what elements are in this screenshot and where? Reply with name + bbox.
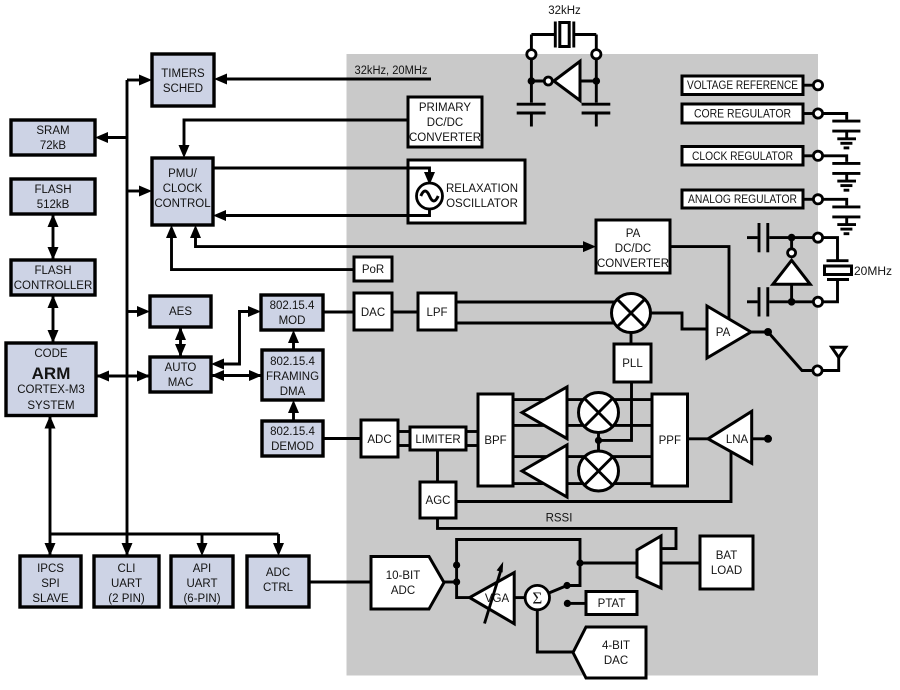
wire sigma to 4-BIT DAC bbox=[537, 610, 573, 652]
svg-text:CORTEX-M3: CORTEX-M3 bbox=[17, 384, 85, 396]
svg-text:MAC: MAC bbox=[168, 377, 194, 389]
svg-text:72kB: 72kB bbox=[40, 140, 67, 152]
block PTAT bbox=[586, 592, 637, 615]
block CORE REGULATOR bbox=[682, 104, 803, 123]
svg-text:FRAMING: FRAMING bbox=[266, 371, 319, 383]
wire loop bracket bbox=[457, 540, 580, 566]
node LNA RF pin bbox=[764, 435, 772, 443]
wire trapezoid to BAT LOAD bbox=[661, 562, 700, 565]
node switch contact PTAT bbox=[564, 600, 571, 607]
svg-text:CONTROLLER: CONTROLLER bbox=[14, 280, 93, 292]
svg-text:PA: PA bbox=[626, 228, 641, 240]
svg-text:10-BIT: 10-BIT bbox=[386, 570, 421, 582]
wire DEMOD to ADC bbox=[323, 437, 361, 440]
wire PMU to PA DCDC converter bbox=[190, 225, 596, 252]
antenna bbox=[823, 347, 846, 370]
wire FLASH CONTROLLER to ARM double arrow bbox=[48, 295, 59, 343]
svg-text:OSCILLATOR: OSCILLATOR bbox=[446, 198, 518, 210]
wire 32kHz 20MHz clock line to TIMERS bbox=[214, 74, 431, 85]
svg-text:TIMERS: TIMERS bbox=[161, 68, 205, 80]
block FLASH CONTROLLER bbox=[11, 260, 95, 295]
svg-text:CODE: CODE bbox=[34, 348, 68, 360]
svg-text:802.15.4: 802.15.4 bbox=[270, 426, 315, 438]
mixer RX I bbox=[579, 393, 619, 433]
ground ANALOG regulator bbox=[837, 225, 856, 234]
wire ADC to LIMITER pair bbox=[398, 432, 410, 446]
wire PA output to antenna pin bbox=[751, 332, 813, 371]
svg-text:LIMITER: LIMITER bbox=[415, 434, 460, 446]
wire TX mixer to PA bbox=[651, 313, 708, 329]
svg-text:BPF: BPF bbox=[484, 435, 506, 447]
crystal 32kHz bbox=[531, 22, 596, 48]
capacitor 32kHz left bbox=[517, 81, 546, 127]
wire RX rail I+ bbox=[513, 398, 652, 401]
svg-text:4-BIT: 4-BIT bbox=[602, 640, 630, 652]
node mux junction bbox=[576, 559, 583, 566]
svg-text:SRAM: SRAM bbox=[36, 125, 69, 137]
amplifier PA bbox=[707, 306, 751, 358]
svg-text:SYSTEM: SYSTEM bbox=[27, 400, 74, 412]
wire LNA output to pin bbox=[752, 437, 765, 440]
svg-text:CTRL: CTRL bbox=[263, 582, 294, 594]
svg-text:802.15.4: 802.15.4 bbox=[270, 356, 315, 368]
summer sigma bbox=[525, 585, 549, 609]
wire switch blade to sigma bbox=[547, 586, 568, 595]
svg-text:802.15.4: 802.15.4 bbox=[270, 300, 315, 312]
svg-text:(6-PIN): (6-PIN) bbox=[183, 593, 220, 605]
svg-text:PRIMARY: PRIMARY bbox=[419, 102, 472, 114]
wire bus to SRAM bbox=[95, 132, 127, 143]
pin CLOCK REGULATOR bbox=[803, 151, 823, 160]
block 802.15.4 FRAMING DMA bbox=[262, 350, 323, 400]
svg-text:AUTO: AUTO bbox=[165, 362, 197, 374]
svg-text:ARM: ARM bbox=[32, 364, 71, 383]
svg-text:PoR: PoR bbox=[362, 264, 384, 276]
wire LIMITER to BPF pair bbox=[466, 432, 478, 446]
block PoR bbox=[354, 257, 392, 281]
node 20MHz bottom junction bbox=[788, 298, 813, 306]
node loop left lower bbox=[453, 578, 460, 585]
pin VOLTAGE REFERENCE bbox=[803, 81, 823, 90]
wire bus to TIMERS SCHED bbox=[127, 75, 152, 86]
chip die background bbox=[347, 54, 819, 676]
pin RF antenna bbox=[813, 366, 822, 375]
svg-text:PPF: PPF bbox=[659, 435, 681, 447]
svg-text:ADC: ADC bbox=[367, 434, 391, 446]
wire MOD to DAC bbox=[323, 311, 354, 314]
svg-text:SPI: SPI bbox=[41, 578, 60, 590]
mixer TX bbox=[612, 294, 651, 333]
svg-text:DC/DC: DC/DC bbox=[615, 243, 651, 255]
svg-text:ADC: ADC bbox=[391, 585, 415, 597]
wire TX mixer to PLL bbox=[630, 333, 633, 345]
block AGC bbox=[420, 482, 456, 518]
block DAC bbox=[354, 293, 392, 330]
svg-text:VOLTAGE REFERENCE: VOLTAGE REFERENCE bbox=[687, 80, 798, 92]
wire AES to AUTO MAC double arrow bbox=[175, 327, 186, 357]
block ADC RX bbox=[361, 420, 398, 457]
svg-text:DMA: DMA bbox=[280, 386, 306, 398]
block RELAXATION OSCILLATOR bbox=[408, 160, 525, 223]
capacitor 32kHz right bbox=[582, 81, 611, 127]
oscillator sine symbol bbox=[417, 183, 443, 209]
block CLI UART 2 PIN bbox=[94, 556, 159, 607]
svg-text:20MHz: 20MHz bbox=[854, 264, 892, 278]
block PPF bbox=[652, 394, 688, 486]
svg-text:CLOCK: CLOCK bbox=[163, 183, 203, 195]
svg-text:AGC: AGC bbox=[426, 495, 451, 507]
svg-text:PLL: PLL bbox=[622, 358, 643, 370]
svg-text:FLASH: FLASH bbox=[34, 184, 71, 196]
svg-text:IPCS: IPCS bbox=[37, 563, 64, 575]
node RX LO junction bbox=[595, 437, 602, 444]
wire VGA to sigma bbox=[514, 596, 525, 599]
svg-text:512kB: 512kB bbox=[37, 199, 70, 211]
block AES bbox=[150, 296, 211, 327]
wire node to buffer trapezoid bbox=[580, 562, 637, 565]
wire 32kHz left leg bbox=[531, 35, 544, 82]
block BAT LOAD bbox=[700, 536, 753, 589]
svg-text:DAC: DAC bbox=[604, 655, 628, 667]
pin CORE REGULATOR bbox=[803, 109, 823, 118]
wire peripheral bus horizontal bbox=[50, 533, 279, 536]
pin XTAL20 bottom bbox=[813, 297, 822, 306]
block API UART 6-PIN bbox=[171, 556, 233, 607]
svg-text:Σ: Σ bbox=[532, 589, 542, 608]
svg-text:(2 PIN): (2 PIN) bbox=[108, 593, 145, 605]
block PMU CLOCK CONTROL bbox=[152, 158, 213, 225]
wire FRAMING DMA to MOD bbox=[288, 330, 299, 350]
block ADC CTRL bbox=[247, 556, 309, 607]
svg-text:CONVERTER: CONVERTER bbox=[597, 258, 669, 270]
block SRAM 72kB bbox=[11, 120, 95, 155]
wire ARM to AUTO MAC double arrow bbox=[96, 371, 150, 382]
wire ADC CTRL to 10-BIT ADC bbox=[309, 581, 371, 584]
capacitor CLOCK regulator bypass bbox=[823, 156, 861, 181]
converter 10-BIT ADC bbox=[371, 557, 444, 610]
crystal 20MHz bbox=[823, 238, 852, 302]
wire AGC gain control to LNA bbox=[456, 452, 731, 501]
block CLOCK REGULATOR bbox=[682, 147, 803, 166]
wire RX mixers vertical link bbox=[597, 430, 600, 453]
svg-text:CLI: CLI bbox=[118, 563, 136, 575]
svg-text:DC/DC: DC/DC bbox=[427, 117, 463, 129]
block ANALOG REGULATOR bbox=[682, 190, 803, 208]
svg-text:ANALOG REGULATOR: ANALOG REGULATOR bbox=[688, 194, 797, 206]
inverter 32kHz oscillator bbox=[544, 61, 580, 100]
wire AUTO MAC to FRAMING DMA double arrow bbox=[211, 370, 262, 381]
wire relaxation oscillator to PMU bbox=[213, 208, 430, 221]
wire RX rail Q- bbox=[513, 482, 652, 485]
wire CPU bus vertical bbox=[126, 80, 129, 556]
svg-text:DAC: DAC bbox=[361, 307, 385, 319]
block PLL bbox=[614, 344, 651, 382]
capacitor CORE regulator bypass bbox=[823, 114, 861, 139]
wire LPF to TX mixer pair bbox=[456, 302, 618, 323]
block PRIMARY DC/DC CONVERTER bbox=[408, 97, 482, 147]
block BPF bbox=[478, 394, 513, 486]
svg-text:VGA: VGA bbox=[485, 593, 510, 605]
wire PoR to PMU bbox=[166, 225, 354, 270]
wire node to VGA input bbox=[457, 582, 470, 598]
wire mux junction to switch contact bbox=[567, 563, 580, 586]
pin XTAL32 right bbox=[592, 50, 601, 59]
svg-text:UART: UART bbox=[186, 578, 217, 590]
svg-text:CONVERTER: CONVERTER bbox=[409, 132, 481, 144]
svg-text:CONTROL: CONTROL bbox=[154, 198, 211, 210]
wire 32kHz right leg bbox=[581, 35, 596, 82]
svg-text:32kHz: 32kHz bbox=[548, 5, 581, 17]
block 802.15.4 DEMOD bbox=[262, 421, 323, 456]
svg-text:RSSI: RSSI bbox=[546, 513, 573, 525]
wire contact to PTAT bbox=[570, 602, 586, 605]
svg-text:RELAXATION: RELAXATION bbox=[446, 183, 518, 195]
svg-text:LNA: LNA bbox=[726, 434, 749, 446]
wire PPF to LNA bbox=[688, 437, 709, 440]
node switch contact upper bbox=[563, 582, 570, 589]
wire DAC to LPF bbox=[392, 311, 418, 314]
wire bus to AES bbox=[127, 306, 150, 317]
capacitor ANALOG regulator bypass bbox=[823, 199, 861, 224]
inverter 20MHz oscillator bbox=[773, 238, 810, 302]
pin ANALOG REGULATOR bbox=[803, 195, 823, 204]
svg-text:CLOCK REGULATOR: CLOCK REGULATOR bbox=[692, 151, 793, 163]
wire PMU to relaxation oscillator bbox=[213, 168, 435, 185]
wire PRIMARY DCDC to PMU bbox=[179, 120, 409, 158]
wire PLL to RX mixers LO bbox=[599, 382, 632, 440]
VGA variable gain arrow bbox=[485, 562, 504, 624]
ground CLOCK regulator bbox=[837, 181, 856, 190]
block TIMERS SCHED bbox=[152, 54, 214, 106]
svg-text:PMU/: PMU/ bbox=[168, 168, 198, 180]
amplifier LNA bbox=[708, 411, 752, 463]
capacitor 20MHz top bbox=[747, 223, 788, 252]
wire FLASH to FLASH CONTROLLER double arrow bbox=[48, 214, 59, 260]
node 20MHz top junction bbox=[788, 234, 813, 242]
node 32kHz right junction bbox=[593, 77, 601, 85]
svg-text:32kHz, 20MHz: 32kHz, 20MHz bbox=[355, 65, 428, 77]
svg-text:FLASH: FLASH bbox=[34, 265, 71, 277]
amplifier RX I bbox=[522, 387, 567, 439]
wire RSSI bbox=[438, 518, 677, 549]
svg-text:LPF: LPF bbox=[426, 307, 447, 319]
converter 4-BIT DAC bbox=[573, 627, 646, 678]
svg-text:API: API bbox=[193, 563, 212, 575]
svg-text:MOD: MOD bbox=[279, 315, 306, 327]
block FLASH 512kB bbox=[11, 179, 95, 214]
svg-text:LOAD: LOAD bbox=[711, 565, 742, 577]
amplifier RX Q bbox=[522, 445, 567, 497]
block PA DC/DC CONVERTER bbox=[596, 220, 670, 273]
svg-text:DEMOD: DEMOD bbox=[271, 441, 314, 453]
node 32kHz left junction bbox=[528, 77, 536, 85]
buffer trapezoid mux bbox=[637, 536, 661, 588]
svg-text:ADC: ADC bbox=[266, 567, 290, 579]
block VOLTAGE REFERENCE bbox=[682, 76, 803, 95]
pin XTAL20 top bbox=[813, 233, 822, 242]
wire bus to PMU bbox=[127, 186, 152, 197]
wire to API UART bbox=[197, 534, 208, 556]
svg-text:AES: AES bbox=[169, 306, 192, 318]
block 802.15.4 MOD bbox=[261, 295, 323, 330]
wire RX rail Q+ bbox=[513, 455, 652, 458]
wire ARM to IPCS SPI SLAVE double arrow bbox=[45, 416, 56, 557]
mixer RX Q bbox=[579, 451, 619, 491]
svg-text:SLAVE: SLAVE bbox=[32, 593, 69, 605]
svg-text:UART: UART bbox=[111, 578, 142, 590]
wire LIMITER to AGC bbox=[436, 450, 439, 482]
block LIMITER bbox=[410, 427, 466, 450]
block LPF bbox=[418, 293, 456, 330]
wire switch node pair vertical bbox=[455, 565, 458, 582]
svg-text:BAT: BAT bbox=[716, 550, 738, 562]
amplifier VGA bbox=[470, 573, 515, 624]
block IPCS SPI SLAVE bbox=[20, 556, 81, 607]
pin XTAL32 left bbox=[527, 50, 536, 59]
block AUTO MAC bbox=[150, 357, 211, 392]
svg-text:SCHED: SCHED bbox=[163, 83, 203, 95]
ground CORE regulator bbox=[837, 139, 856, 148]
wire AUTO MAC to 802.15.4 MOD bbox=[211, 306, 261, 370]
wire DEMOD to FRAMING DMA bbox=[288, 400, 299, 421]
wire RX rail I- bbox=[513, 424, 652, 427]
wire bus to CLI UART arrow bbox=[122, 543, 133, 556]
svg-text:PTAT: PTAT bbox=[598, 598, 626, 610]
node loop left upper bbox=[453, 562, 460, 569]
capacitor 20MHz bottom bbox=[747, 287, 788, 316]
svg-text:PA: PA bbox=[716, 327, 731, 339]
block ARM CORTEX-M3 bbox=[6, 343, 96, 416]
svg-text:CORE REGULATOR: CORE REGULATOR bbox=[694, 109, 791, 121]
wire to ADC CTRL bbox=[273, 534, 284, 556]
node PA output bbox=[764, 328, 772, 336]
wire 10-BIT ADC to switch node bbox=[444, 581, 457, 584]
wire PA DCDC to PA bbox=[670, 247, 729, 319]
